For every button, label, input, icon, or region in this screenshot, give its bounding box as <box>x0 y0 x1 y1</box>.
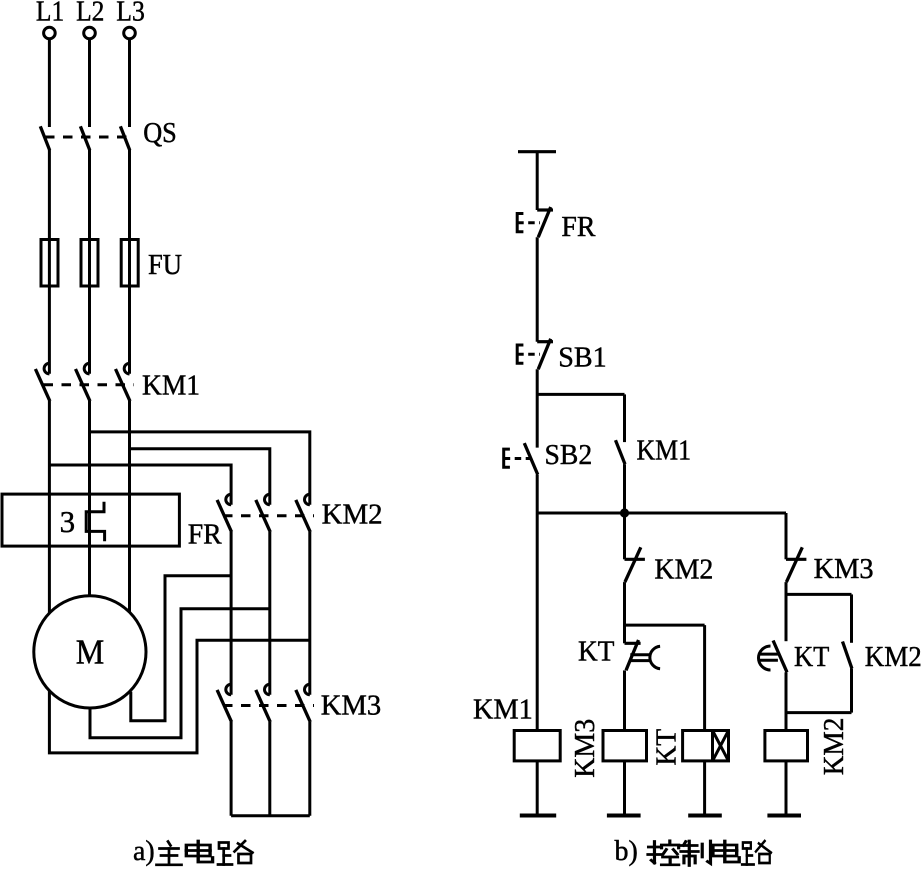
svg-text:KM3: KM3 <box>321 690 382 722</box>
svg-text:KM3: KM3 <box>569 719 601 778</box>
svg-text:FR: FR <box>561 211 596 243</box>
svg-text:KM2: KM2 <box>865 641 922 673</box>
svg-text:L2: L2 <box>76 0 104 28</box>
svg-text:a): a) <box>133 836 155 867</box>
svg-text:3: 3 <box>60 504 76 539</box>
svg-text:KT: KT <box>794 641 830 673</box>
svg-text:KM1: KM1 <box>142 370 200 402</box>
svg-text:KT: KT <box>650 729 682 766</box>
svg-text:b): b) <box>615 836 638 867</box>
svg-text:M: M <box>76 633 105 672</box>
svg-text:KM2: KM2 <box>818 718 850 776</box>
svg-text:KM1: KM1 <box>473 694 533 726</box>
svg-text:L1: L1 <box>36 0 64 28</box>
svg-text:FR: FR <box>188 519 223 551</box>
svg-text:KM2: KM2 <box>322 499 383 531</box>
svg-text:KM3: KM3 <box>814 553 874 585</box>
svg-text:QS: QS <box>143 117 177 149</box>
svg-text:KM1: KM1 <box>637 435 692 467</box>
svg-text:SB1: SB1 <box>558 342 606 374</box>
svg-text:L3: L3 <box>116 0 145 28</box>
svg-text:KT: KT <box>578 636 615 668</box>
svg-text:FU: FU <box>148 249 182 281</box>
svg-text:SB2: SB2 <box>545 439 593 471</box>
svg-text:KM2: KM2 <box>654 554 713 586</box>
